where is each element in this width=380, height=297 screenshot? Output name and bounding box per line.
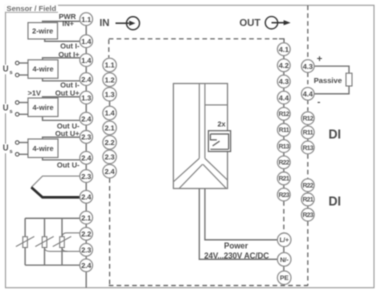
svg-text:2.4: 2.4 — [81, 75, 92, 84]
svg-text:2.4: 2.4 — [81, 114, 92, 123]
svg-text:4.1: 4.1 — [279, 45, 289, 54]
svg-text:R23: R23 — [303, 212, 314, 219]
svg-text:s: s — [10, 70, 13, 76]
svg-text:OUT: OUT — [239, 18, 260, 29]
svg-text:2.1: 2.1 — [105, 124, 115, 133]
svg-text:24V...230V AC/DC: 24V...230V AC/DC — [204, 251, 269, 260]
svg-text:4.4: 4.4 — [279, 93, 290, 102]
svg-text:R13: R13 — [279, 143, 290, 150]
svg-text:4-wire: 4-wire — [32, 103, 53, 112]
svg-text:Out U+: Out U+ — [55, 129, 80, 138]
svg-text:Power: Power — [224, 242, 248, 251]
svg-text:Out U-: Out U- — [57, 160, 80, 169]
svg-text:U: U — [3, 65, 9, 74]
svg-text:U: U — [3, 144, 9, 153]
svg-text:R21: R21 — [303, 197, 314, 204]
svg-text:4.3: 4.3 — [303, 62, 313, 71]
svg-text:1.2: 1.2 — [105, 75, 115, 84]
svg-text:1.1: 1.1 — [105, 61, 115, 70]
svg-text:4-wire: 4-wire — [32, 65, 53, 74]
svg-text:2.2: 2.2 — [81, 229, 91, 238]
svg-text:s: s — [10, 109, 13, 115]
svg-text:1.4: 1.4 — [105, 109, 116, 118]
svg-text:N/-: N/- — [280, 257, 289, 264]
svg-text:1.3: 1.3 — [81, 93, 91, 102]
svg-text:Out U+: Out U+ — [55, 88, 80, 97]
svg-text:1.1: 1.1 — [81, 15, 91, 24]
svg-text:U: U — [3, 104, 9, 113]
svg-text:DI: DI — [329, 195, 342, 209]
svg-text:4.4: 4.4 — [303, 89, 314, 98]
svg-text:2.4: 2.4 — [81, 153, 92, 162]
svg-text:2-wire: 2-wire — [32, 26, 53, 35]
svg-text:4.3: 4.3 — [279, 77, 289, 86]
svg-text:+: + — [317, 54, 323, 65]
svg-text:1.3: 1.3 — [105, 90, 115, 99]
svg-text:2.1: 2.1 — [81, 213, 91, 222]
svg-text:1.4: 1.4 — [81, 56, 92, 65]
svg-text:2.3: 2.3 — [81, 172, 91, 181]
svg-text:DI: DI — [329, 127, 342, 141]
svg-text:R13: R13 — [303, 145, 314, 152]
svg-text:4.2: 4.2 — [279, 61, 289, 70]
svg-text:Passive: Passive — [314, 76, 342, 85]
svg-text:1.4: 1.4 — [81, 37, 92, 46]
svg-text:PE: PE — [280, 275, 289, 282]
svg-text:R21: R21 — [279, 176, 290, 183]
svg-text:R22: R22 — [279, 160, 290, 167]
svg-text:2.3: 2.3 — [81, 133, 91, 142]
svg-text:4-wire: 4-wire — [32, 144, 53, 153]
svg-text:s: s — [10, 149, 13, 155]
svg-text:2.4: 2.4 — [81, 261, 92, 270]
svg-text:IN+: IN+ — [62, 19, 74, 28]
svg-text:R23: R23 — [279, 192, 290, 199]
svg-text:R22: R22 — [303, 183, 314, 190]
svg-text:2.3: 2.3 — [105, 152, 115, 161]
svg-text:R12: R12 — [279, 111, 290, 118]
svg-text:IN: IN — [100, 18, 110, 29]
svg-text:2.4: 2.4 — [81, 192, 92, 201]
svg-text:R12: R12 — [303, 116, 314, 123]
svg-text:2x: 2x — [218, 119, 226, 128]
svg-text:L/+: L/+ — [279, 237, 289, 244]
svg-text:R11: R11 — [279, 127, 290, 134]
svg-text:>1V: >1V — [28, 89, 41, 98]
svg-text:2.4: 2.4 — [105, 167, 116, 176]
svg-text:-: - — [317, 97, 320, 108]
svg-text:R11: R11 — [303, 130, 314, 137]
svg-text:Sensor / Field: Sensor / Field — [7, 4, 57, 13]
svg-text:2.3: 2.3 — [81, 245, 91, 254]
svg-text:Out I+: Out I+ — [58, 50, 80, 59]
svg-text:2.2: 2.2 — [105, 138, 115, 147]
